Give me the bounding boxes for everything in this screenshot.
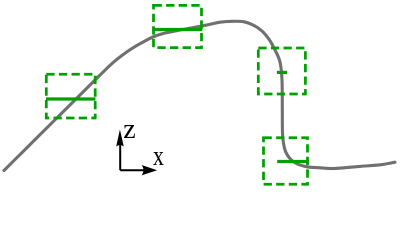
svg-text:z: z — [123, 114, 135, 145]
axis z (vertical line) — [119, 141, 121, 170]
curve: gray trajectory spline — [4, 21, 395, 170]
tangent segment 3 (short, centered) — [277, 71, 287, 74]
axis z arrowhead (stealth) — [116, 130, 124, 147]
svg-text:x: x — [153, 142, 164, 172]
tangent segment 1 — [46, 97, 96, 100]
axis x arrowhead (stealth) — [142, 165, 158, 175]
dashed box 4 (bottom right) — [264, 138, 308, 184]
dashed box 3 (right middle) — [258, 48, 305, 94]
axis x (horizontal line) — [120, 169, 147, 171]
tangent segment 4 (right half) — [277, 160, 309, 163]
dashed box 2 (top) — [154, 5, 202, 47]
dashed box 1 (left) — [46, 74, 95, 118]
label x — [153, 142, 164, 172]
tangent segment 2 — [152, 28, 202, 31]
